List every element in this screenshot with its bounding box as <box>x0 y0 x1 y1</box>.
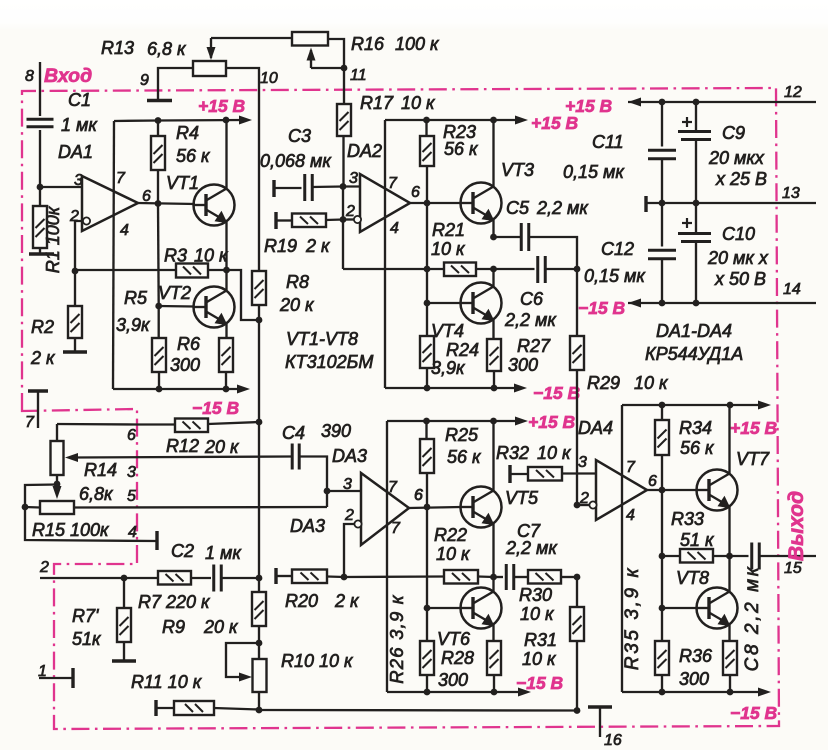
svg-text:VT3: VT3 <box>501 160 534 180</box>
svg-text:VT2: VT2 <box>158 283 191 303</box>
svg-text:2 к: 2 к <box>305 236 331 256</box>
capacitor C12 <box>661 203 663 247</box>
svg-text:VT4: VT4 <box>431 321 464 341</box>
svg-text:−15 В: −15 В <box>192 398 239 418</box>
wire inverting feedback <box>75 269 176 271</box>
svg-text:R27: R27 <box>517 336 551 356</box>
wire R4-VT2 base <box>157 204 160 307</box>
svg-text:51 к: 51 к <box>680 530 715 550</box>
wire DA2 feedback down <box>342 187 344 270</box>
svg-text:0,068 мк: 0,068 мк <box>260 151 332 171</box>
svg-text:DA4: DA4 <box>578 418 613 438</box>
resistor R1 <box>39 203 41 206</box>
svg-text:10 к: 10 к <box>634 373 669 393</box>
capacitor C8 <box>730 555 749 557</box>
DA1 pin2 circle <box>83 217 90 224</box>
resistor R3 <box>176 264 208 278</box>
resistor R28 <box>487 641 501 675</box>
svg-text:R11 10 к: R11 10 к <box>131 672 203 692</box>
svg-text:56 к: 56 к <box>444 139 479 159</box>
svg-text:R17: R17 <box>360 93 394 113</box>
ground R2 <box>63 350 87 353</box>
potentiometer R13 <box>193 61 226 76</box>
node spine C2 <box>256 575 263 582</box>
potentiometer R14 <box>56 424 58 441</box>
resistor R29 <box>576 269 578 336</box>
svg-text:56 к: 56 к <box>176 146 211 166</box>
svg-text:R30: R30 <box>519 585 552 605</box>
wire DA1 supply pins <box>113 121 114 389</box>
svg-text:R4: R4 <box>176 123 199 143</box>
svg-text:+15 В: +15 В <box>730 418 777 438</box>
svg-text:R7 220 к: R7 220 к <box>138 592 211 612</box>
wire VT2 collector <box>225 270 227 291</box>
svg-text:+15 В: +15 В <box>531 113 578 133</box>
resistor R17 <box>337 104 351 136</box>
svg-text:6,8 к: 6,8 к <box>147 39 187 59</box>
svg-text:10 к: 10 к <box>522 649 557 669</box>
svg-text:х 50 В: х 50 В <box>714 269 766 289</box>
capacitor C2 <box>212 565 215 592</box>
svg-text:R33: R33 <box>671 509 704 529</box>
svg-text:−15 В: −15 В <box>730 703 777 723</box>
transistor VT3 <box>461 183 502 224</box>
svg-text:2,2 мк: 2,2 мк <box>504 310 557 330</box>
wire DA3 supply pins <box>386 421 388 692</box>
wire DA3 pin3 <box>327 490 361 492</box>
svg-text:C3: C3 <box>288 126 311 146</box>
node spine R12 <box>256 419 263 426</box>
transistor VT7 <box>697 470 738 511</box>
resistor R6 <box>219 338 233 372</box>
wire VT2 base <box>159 305 194 308</box>
resistor R36 <box>723 641 737 675</box>
transistor VT1 <box>194 185 235 226</box>
wire R13 wiper to R16 <box>211 37 292 39</box>
svg-text:VT7: VT7 <box>736 449 770 469</box>
svg-text:12: 12 <box>784 84 802 101</box>
pin 16 stub <box>588 705 612 708</box>
wire DA1 output <box>138 203 195 204</box>
wire R12 row <box>57 423 175 426</box>
svg-text:VT5: VT5 <box>505 488 539 508</box>
resistor R2 <box>74 271 76 306</box>
svg-text:DA2: DA2 <box>347 141 382 161</box>
svg-text:R13: R13 <box>101 38 134 58</box>
+15V rail DA3 <box>387 420 521 422</box>
svg-text:R8: R8 <box>286 272 309 292</box>
resistor R20 <box>292 570 327 584</box>
wire VT6 base <box>427 607 461 609</box>
wire VT7 collector <box>728 405 730 474</box>
wire VT8 collector <box>728 556 730 592</box>
wire DA3 output <box>409 507 461 508</box>
svg-text:R1 100к: R1 100к <box>43 205 63 273</box>
svg-text:−15 В: −15 В <box>516 673 563 693</box>
svg-text:R5: R5 <box>124 288 148 308</box>
R15 wiper arrow <box>56 484 58 489</box>
svg-text:R26 3,9 к: R26 3,9 к <box>386 594 407 684</box>
wire VT4 emitter <box>492 320 494 340</box>
svg-text:R31: R31 <box>524 630 557 650</box>
svg-text:4: 4 <box>626 507 635 524</box>
svg-text:56 к: 56 к <box>680 438 715 458</box>
svg-text:3: 3 <box>349 170 358 187</box>
svg-text:300: 300 <box>508 355 538 375</box>
resistor R23 <box>425 120 427 136</box>
svg-text:C2: C2 <box>171 541 194 561</box>
transistor VT5 <box>461 487 502 528</box>
svg-text:3: 3 <box>578 454 587 471</box>
wire VT5-VT6 base link <box>426 507 428 608</box>
resistor R24 <box>426 303 428 336</box>
resistor R19 <box>274 212 277 229</box>
svg-text:R16: R16 <box>351 34 385 54</box>
potentiometer R15 <box>40 501 74 514</box>
svg-text:10 к: 10 к <box>436 544 471 564</box>
svg-text:R20: R20 <box>285 591 318 611</box>
svg-text:20 к: 20 к <box>203 617 239 637</box>
wire R15 left <box>25 506 40 509</box>
wire VT6 collector <box>492 577 494 592</box>
svg-text:R19: R19 <box>264 236 297 256</box>
svg-text:7: 7 <box>116 170 126 187</box>
svg-text:2,2 мк: 2,2 мк <box>536 198 589 218</box>
wire R13 right / pin10 <box>226 68 259 90</box>
op-amp U DA2 <box>360 174 410 232</box>
pin 9 ground stub <box>158 68 193 99</box>
svg-text:C6: C6 <box>520 289 544 309</box>
pin 2 wire <box>40 577 124 579</box>
capacitor C7 <box>494 576 504 578</box>
resistor R8 <box>252 271 266 305</box>
svg-text:0,15 мк: 0,15 мк <box>563 162 625 182</box>
svg-text:3: 3 <box>127 464 136 481</box>
svg-text:R35 3,9 к: R35 3,9 к <box>622 566 643 670</box>
capacitor C10 <box>695 203 697 233</box>
svg-text:7: 7 <box>388 479 398 496</box>
svg-text:3,9к: 3,9к <box>116 315 151 335</box>
node R14 bottom <box>56 475 58 484</box>
svg-text:2: 2 <box>345 203 355 220</box>
R20 row wire <box>274 568 277 584</box>
op-amp U DA3 <box>361 473 409 545</box>
resistor R9 <box>258 578 260 592</box>
svg-text:13: 13 <box>782 185 800 202</box>
wire VT4 base <box>427 302 461 304</box>
wire VT4 base node <box>426 269 428 303</box>
svg-text:+15 В: +15 В <box>565 96 612 116</box>
svg-text:14: 14 <box>783 281 801 298</box>
wire R15 right row <box>74 506 327 509</box>
svg-text:2 к: 2 к <box>30 348 56 368</box>
R14 wiper arrow <box>65 453 78 462</box>
svg-text:10 к: 10 к <box>520 604 555 624</box>
resistor R11 <box>154 700 157 716</box>
wire R33 column <box>661 490 663 556</box>
svg-text:1: 1 <box>38 663 47 680</box>
node DA3 pin3 <box>324 488 331 495</box>
svg-text:R7': R7' <box>72 606 99 626</box>
-15V rail DA4 <box>622 691 764 693</box>
resistor R5 <box>158 306 160 338</box>
resistor R31 <box>576 577 578 607</box>
svg-text:300: 300 <box>170 355 200 375</box>
svg-text:R24: R24 <box>446 340 479 360</box>
svg-text:R22: R22 <box>434 525 467 545</box>
wire pin 13 <box>644 196 647 212</box>
svg-text:C5: C5 <box>506 198 530 218</box>
wire VT2 emitter <box>225 324 227 339</box>
svg-text:R36: R36 <box>679 646 713 666</box>
svg-text:10 к: 10 к <box>431 239 466 259</box>
R10 wiper wire <box>226 643 259 677</box>
svg-text:R21: R21 <box>432 220 465 240</box>
op-amp U DA4 <box>596 460 647 520</box>
wire DA4 output <box>647 489 697 491</box>
svg-text:R15 100к: R15 100к <box>32 520 110 540</box>
svg-text:10 к: 10 к <box>537 443 572 463</box>
capacitor C9 <box>695 102 697 131</box>
svg-text:3: 3 <box>74 172 83 189</box>
wire VT4 collector <box>492 269 494 287</box>
pin 8 input wire <box>39 62 41 116</box>
svg-text:C12: C12 <box>601 239 634 259</box>
wire DA4 supply pins <box>621 405 623 692</box>
svg-text:10 к: 10 к <box>401 93 436 113</box>
svg-text:15: 15 <box>784 560 802 577</box>
capacitor C5 <box>494 236 522 238</box>
capacitor C6 <box>494 268 535 270</box>
svg-text:КР544УД1А: КР544УД1А <box>645 344 743 364</box>
svg-text:4: 4 <box>128 524 137 541</box>
wire VT6 emitter <box>492 625 494 642</box>
svg-text:R29: R29 <box>587 373 620 393</box>
svg-text:300: 300 <box>679 669 709 689</box>
svg-text:9: 9 <box>140 72 149 89</box>
wire R16 wiper-right join <box>311 67 344 69</box>
svg-text:2 к: 2 к <box>334 591 360 611</box>
svg-text:2: 2 <box>579 490 589 507</box>
svg-text:56 к: 56 к <box>447 447 482 467</box>
wire DA2 output <box>410 202 461 204</box>
pin 7 stub <box>28 389 48 392</box>
svg-text:R34: R34 <box>679 418 712 438</box>
svg-text:6: 6 <box>414 487 423 504</box>
svg-text:R28: R28 <box>441 648 474 668</box>
DA3 pin2 circle <box>354 520 361 527</box>
wire VT8 emitter <box>728 625 730 642</box>
svg-text:R9: R9 <box>162 617 185 637</box>
-15V rail DA2 <box>385 387 520 389</box>
svg-text:2,2 мк: 2,2 мк <box>505 538 558 558</box>
svg-text:C11: C11 <box>592 132 624 152</box>
svg-text:5: 5 <box>127 488 136 505</box>
-15V rail DA1 <box>113 388 244 390</box>
wire DA2 supply pins <box>384 120 386 388</box>
svg-text:C10: C10 <box>722 224 755 244</box>
svg-text:VT1-VT8: VT1-VT8 <box>286 329 358 349</box>
svg-text:DA1: DA1 <box>58 142 93 162</box>
R13 wiper arrow <box>210 38 212 58</box>
resistor R32 <box>508 465 511 483</box>
wire VT3 collector <box>492 120 494 187</box>
svg-text:7: 7 <box>391 520 401 537</box>
svg-text:6: 6 <box>411 184 420 201</box>
svg-text:100 к: 100 к <box>395 34 440 54</box>
svg-text:VT6: VT6 <box>437 629 471 649</box>
transistor VT8 <box>697 588 738 629</box>
resistor R7' <box>123 578 125 608</box>
wire DA2 pin3 <box>343 185 360 187</box>
wire VT7 emitter <box>728 507 730 557</box>
svg-text:20 мкх: 20 мкх <box>708 148 765 168</box>
resistor R21 <box>427 268 444 270</box>
svg-text:C4: C4 <box>282 423 305 443</box>
wire VT5 emitter <box>492 524 494 578</box>
potentiometer R10 <box>258 643 260 659</box>
svg-text:R12: R12 <box>166 436 199 456</box>
resistor R26 <box>426 608 428 641</box>
wire VT8 base <box>661 556 663 608</box>
svg-text:7: 7 <box>25 414 35 431</box>
wire DA3 pin2 <box>344 524 355 577</box>
svg-text:8: 8 <box>25 68 34 85</box>
wire R20-R22 <box>344 575 444 578</box>
svg-text:0,15 мк: 0,15 мк <box>584 266 646 286</box>
svg-text:390: 390 <box>321 421 351 441</box>
resistor R27 <box>487 339 501 371</box>
wire spine mid <box>258 320 260 578</box>
resistor R30 <box>528 570 561 584</box>
capacitor C1 <box>27 118 54 121</box>
resistor R4 <box>157 120 159 136</box>
feedback bus wire <box>259 709 577 712</box>
svg-text:6: 6 <box>127 427 136 444</box>
svg-text:51к: 51к <box>72 629 102 649</box>
wire R14-R15 left <box>25 485 57 508</box>
wire DA1 pin3 <box>40 186 82 188</box>
svg-text:VT8: VT8 <box>676 568 709 588</box>
svg-text:−15 В: −15 В <box>578 298 625 318</box>
capacitor C9 plus <box>682 121 692 123</box>
node DA2 pin3 <box>340 183 347 190</box>
resistor R34 <box>661 405 663 420</box>
svg-text:R2: R2 <box>31 317 54 337</box>
svg-text:C9: C9 <box>722 123 745 143</box>
capacitor C10 plus <box>682 222 692 224</box>
svg-text:х 25 В: х 25 В <box>715 169 767 189</box>
svg-text:16: 16 <box>604 732 622 749</box>
svg-text:300: 300 <box>438 670 468 690</box>
DA4 pin2 circle <box>589 501 596 508</box>
-15V rail DA3 <box>387 691 524 693</box>
svg-text:2: 2 <box>344 507 354 524</box>
svg-text:6,8к: 6,8к <box>79 484 114 504</box>
node DA2 pin2 <box>340 216 347 223</box>
wire DA1 pin2 <box>75 221 83 271</box>
resistor R25 <box>425 421 427 439</box>
svg-text:11: 11 <box>350 67 367 84</box>
R8 bypass wire <box>227 270 260 320</box>
wire VT5 collector <box>492 421 494 491</box>
svg-text:1 мк: 1 мк <box>61 115 98 135</box>
svg-text:1 мк: 1 мк <box>205 543 242 563</box>
resistor R22 <box>444 570 478 584</box>
op-amp U DA1 <box>82 176 138 231</box>
svg-text:КТ3102БМ: КТ3102БМ <box>285 352 373 372</box>
svg-text:7: 7 <box>388 175 398 192</box>
+15V rail DA2 <box>385 119 521 121</box>
board border (dash-dot) <box>22 88 779 729</box>
wire VT1 collector <box>225 120 227 189</box>
svg-text:2: 2 <box>39 559 49 576</box>
svg-text:20 к: 20 к <box>279 295 315 315</box>
svg-text:20 мк х: 20 мк х <box>707 248 769 268</box>
svg-text:3: 3 <box>343 476 352 493</box>
svg-text:VT1: VT1 <box>166 173 199 193</box>
svg-text:+15 В: +15 В <box>528 412 575 432</box>
svg-text:R25: R25 <box>445 425 479 445</box>
wire pin 11 down <box>343 68 345 104</box>
wire pin 14 -15V <box>628 302 816 304</box>
svg-text:20 к: 20 к <box>204 437 240 457</box>
transistor VT2 <box>194 287 235 328</box>
capacitor C11 <box>661 102 663 147</box>
node C6 right <box>574 266 581 273</box>
svg-text:10: 10 <box>260 70 278 87</box>
wire VT3 emitter <box>492 220 494 238</box>
DA2 pin2 circle <box>354 216 361 223</box>
svg-text:3,9к: 3,9к <box>431 358 466 378</box>
svg-text:DA3: DA3 <box>290 516 325 536</box>
node DA1 pin3 <box>37 184 44 191</box>
svg-text:R6: R6 <box>177 334 201 354</box>
ground R7' <box>112 659 136 662</box>
wire VT1 emitter <box>225 222 227 271</box>
+15V rail DA4 <box>622 404 764 406</box>
transistor VT6 <box>461 588 502 629</box>
ground R1 <box>29 252 54 255</box>
svg-text:Выход: Выход <box>785 491 808 561</box>
svg-text:Вход: Вход <box>44 65 92 87</box>
svg-text:6: 6 <box>648 473 657 490</box>
transistor VT4 <box>461 283 502 324</box>
svg-text:10 к: 10 к <box>194 246 229 266</box>
svg-text:C1: C1 <box>68 90 91 110</box>
R16 wiper arrow <box>307 48 316 61</box>
svg-text:4: 4 <box>120 222 129 239</box>
svg-text:R10 10 к: R10 10 к <box>281 651 354 671</box>
wire feedback horiz <box>343 268 427 270</box>
resistor R35 <box>661 608 663 641</box>
svg-text:−15 В: −15 В <box>533 383 580 403</box>
svg-text:DA1-DA4: DA1-DA4 <box>656 321 732 341</box>
svg-text:R3: R3 <box>164 246 187 266</box>
svg-text:2: 2 <box>69 208 79 225</box>
resistor R33 <box>662 555 680 557</box>
svg-text:R32: R32 <box>496 443 529 463</box>
resistor R12 <box>175 419 208 433</box>
svg-text:C8 2,2 мк: C8 2,2 мк <box>742 565 763 672</box>
+15V rail DA1 <box>114 120 244 121</box>
wire pin 12 +15V <box>628 101 816 103</box>
svg-text:+15 В: +15 В <box>198 96 245 116</box>
wire spine node10 <box>258 90 260 271</box>
svg-text:R14: R14 <box>84 460 117 480</box>
wire pin4 row <box>25 507 156 541</box>
capacitor C3 <box>272 180 275 197</box>
